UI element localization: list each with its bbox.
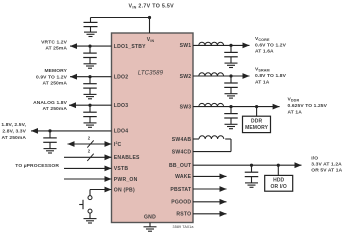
svg-text:OR 5V AT 1A: OR 5V AT 1A [311, 167, 342, 173]
svg-text:LTC3589: LTC3589 [138, 70, 164, 77]
svg-text:0.9V TO 1.2V: 0.9V TO 1.2V [36, 74, 68, 80]
svg-text:AT 250mA: AT 250mA [42, 106, 67, 112]
svg-text:3.3V AT 1.2A: 3.3V AT 1.2A [311, 162, 342, 168]
svg-text:2.8V, 3.3V: 2.8V, 3.3V [2, 129, 26, 135]
svg-text:BB_OUT: BB_OUT [169, 163, 192, 169]
svg-text:LDO3: LDO3 [114, 103, 128, 109]
svg-text:MEMORY: MEMORY [245, 125, 269, 131]
svg-text:SW1: SW1 [180, 43, 192, 49]
svg-text:AT 250mA: AT 250mA [1, 135, 26, 141]
svg-text:PGOOD: PGOOD [171, 200, 191, 206]
svg-text:DDR: DDR [251, 119, 262, 125]
svg-text:0.625V TO 1.25V: 0.625V TO 1.25V [288, 103, 328, 109]
svg-text:SW2: SW2 [180, 74, 192, 80]
svg-text:1.8V, 2.5V,: 1.8V, 2.5V, [1, 122, 26, 128]
svg-text:RSTO: RSTO [176, 212, 191, 218]
svg-text:ENABLES: ENABLES [114, 155, 140, 161]
svg-text:GND: GND [144, 214, 156, 220]
svg-text:OR I/O: OR I/O [271, 184, 287, 190]
svg-text:AT 25mA: AT 25mA [45, 45, 67, 51]
svg-text:WAKE: WAKE [175, 174, 192, 180]
svg-text:SW4CD: SW4CD [172, 149, 192, 155]
svg-text:AT 1A: AT 1A [288, 109, 303, 115]
svg-text:0.8V TO 1.8V: 0.8V TO 1.8V [255, 73, 287, 79]
svg-text:LDO1_STBY: LDO1_STBY [114, 44, 146, 50]
svg-text:VRTC 1.2V: VRTC 1.2V [41, 39, 67, 45]
svg-text:VSTB: VSTB [114, 166, 129, 172]
svg-text:PBSTAT: PBSTAT [170, 187, 192, 193]
svg-text:I/O: I/O [311, 156, 318, 162]
svg-text:ANALOG 1.8V: ANALOG 1.8V [33, 100, 68, 106]
svg-text:LDO2: LDO2 [114, 75, 128, 81]
svg-text:0.6V TO 1.2V: 0.6V TO 1.2V [255, 42, 287, 48]
svg-text:SW3: SW3 [180, 104, 192, 110]
svg-text:PWR_ON: PWR_ON [114, 177, 138, 183]
svg-text:HDD: HDD [273, 178, 284, 184]
svg-text:MEMORY: MEMORY [44, 68, 67, 74]
svg-text:I2C: I2C [114, 141, 122, 148]
svg-text:AT 1.6A: AT 1.6A [255, 49, 274, 55]
svg-text:AT 1A: AT 1A [255, 79, 270, 85]
svg-text:3589 TA01a: 3589 TA01a [173, 225, 195, 229]
svg-text:SW4AB: SW4AB [172, 137, 192, 143]
svg-text:ON (PB): ON (PB) [114, 187, 135, 193]
svg-text:TO µPROCESSOR: TO µPROCESSOR [15, 163, 59, 169]
svg-text:LDO4: LDO4 [114, 129, 128, 135]
svg-text:AT 250mA: AT 250mA [42, 81, 67, 87]
